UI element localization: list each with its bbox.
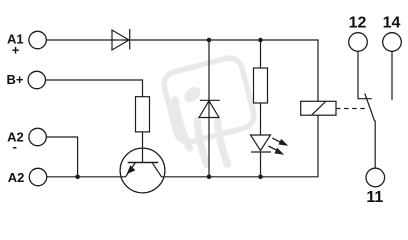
resistor R1 <box>136 97 150 132</box>
svg-text:-: - <box>13 139 17 154</box>
labels <box>7 32 25 186</box>
terminal B+ <box>28 71 45 88</box>
svg-text:+: + <box>12 42 20 57</box>
wire bottom rail left (emitter) <box>47 176 126 178</box>
terminal 14 <box>383 33 402 52</box>
terminal A2 lower <box>29 168 46 185</box>
svg-text:B+: B+ <box>7 72 24 87</box>
contact: terminal 12 lead <box>358 51 372 99</box>
terminal 11 <box>366 168 385 187</box>
transistor base bar <box>128 162 159 164</box>
terminal 12 <box>349 33 368 52</box>
transistor collector <box>153 163 162 177</box>
svg-text:11: 11 <box>366 189 383 206</box>
relay coil K1 <box>301 101 336 115</box>
svg-text:14: 14 <box>383 14 401 31</box>
transistor emitter <box>126 163 136 177</box>
LED D3 <box>251 135 272 152</box>
terminal A2 upper <box>29 128 46 145</box>
svg-text:A2: A2 <box>8 170 25 185</box>
wire A2 upper branch <box>46 137 77 177</box>
svg-text:12: 12 <box>349 14 367 31</box>
zener diode D2 <box>199 100 220 117</box>
contact: moving arm to 11 <box>365 94 375 169</box>
wire LED branch <box>260 40 262 177</box>
wire bottom rail right (collector to coil) <box>161 115 318 177</box>
dashed actuation link <box>336 108 368 110</box>
wire A1 top rail <box>46 40 318 101</box>
wire zener branch <box>208 40 210 177</box>
resistor R2 <box>254 68 268 103</box>
transistor Q1 circle <box>120 148 165 193</box>
terminal circles <box>28 31 401 187</box>
wire B+ to R1 <box>46 80 143 97</box>
contact: terminal 14 lead <box>391 51 393 100</box>
watermark logo <box>161 55 256 164</box>
terminal A1 <box>29 31 46 48</box>
emitter arrow <box>127 165 136 174</box>
diode D1 <box>112 29 130 50</box>
LED light arrows <box>268 138 288 155</box>
wire R1 to base <box>142 132 144 163</box>
